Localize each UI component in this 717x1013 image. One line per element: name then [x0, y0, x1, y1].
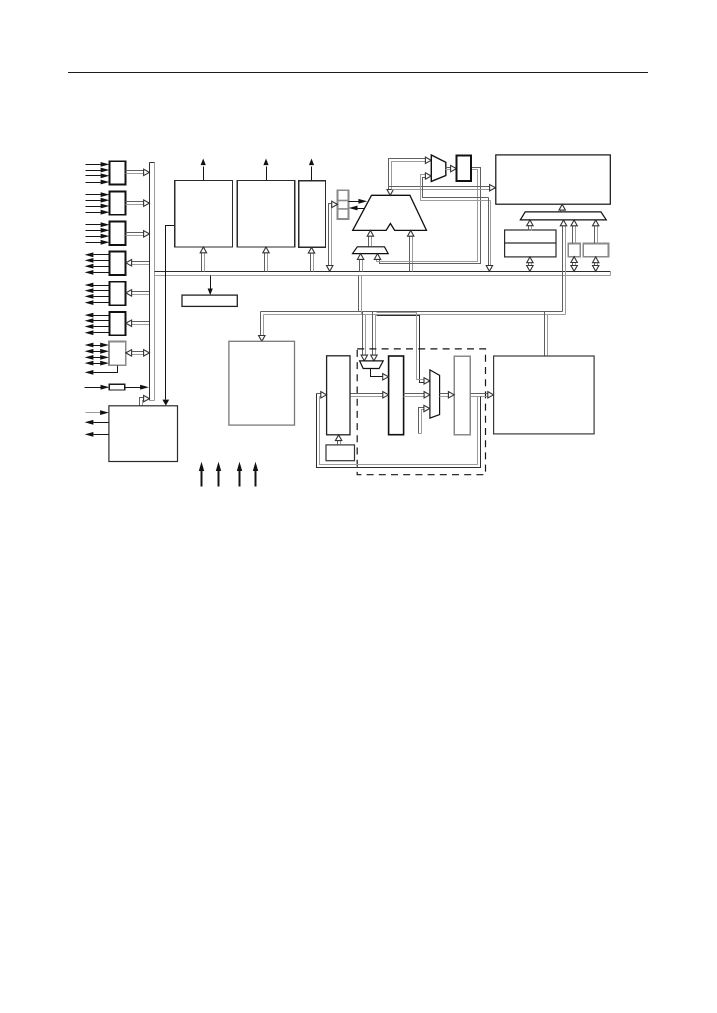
wire output from control box upper: [85, 420, 109, 425]
wire series box to data bus: [125, 385, 149, 390]
input lines into port 3: [86, 222, 110, 244]
bidirectional lines port 7: [85, 343, 109, 366]
wire port 1 to data bus: [126, 169, 150, 175]
wire lower bus down into lower mux left: [361, 312, 367, 361]
wire bus up into block 2: [263, 247, 269, 272]
output lines from port 5: [85, 283, 110, 305]
wire instruction register down to flags mux: [374, 168, 480, 264]
wire pipeline mux to stage box 3: [440, 392, 455, 398]
status arrow 2: [216, 462, 221, 487]
wire over to pipeline mux: [377, 313, 430, 385]
sram block bottom right: [494, 356, 594, 434]
wire port 3 to data bus: [126, 231, 150, 237]
wire lower bus down into data block: [259, 312, 265, 342]
wire trapezoid down into small register: [571, 220, 577, 244]
control box bottom left: [109, 406, 178, 462]
output lines from port 6: [85, 313, 110, 335]
memory block 1: [175, 181, 233, 247]
wire output from control box lower: [85, 432, 109, 437]
wire data bus to port 6: [126, 320, 150, 326]
data block middle left: [229, 341, 295, 425]
instruction register: [456, 155, 471, 181]
status arrow 4: [253, 462, 258, 487]
wire lower bus down to sram block: [545, 312, 548, 357]
output lines from port 4: [85, 252, 110, 274]
wire bus down to small register box: [208, 276, 213, 296]
wire lower mux output to stage box 2: [371, 369, 389, 381]
wire data bus to port 5: [126, 290, 150, 296]
wire bus up into register stack: [327, 201, 338, 271]
status arrow 1: [199, 462, 204, 487]
wire bus up into ALU right: [408, 230, 414, 271]
wire stage box 1 to stage box 2: [351, 392, 389, 398]
small register box center: [568, 244, 580, 257]
wire main bus down to lower bus: [359, 276, 362, 315]
pipeline stage box 2: [389, 356, 404, 435]
header rule: [68, 72, 648, 74]
vertical data bus: [150, 163, 155, 401]
pipeline stage box 1: [327, 356, 350, 435]
wire mux output to instruction register: [446, 165, 457, 171]
small series box on input line: [109, 384, 125, 390]
arrow register stack to ALU: [349, 199, 368, 204]
flags mux below ALU: [353, 247, 389, 254]
feedback register box: [326, 445, 355, 461]
wire pointer register to bus both ways: [593, 257, 599, 271]
feedback loop wire: [317, 394, 481, 468]
pipeline stage box 3: [454, 356, 470, 435]
wire stage box 3 to sram block: [471, 392, 494, 398]
wire net to program block: [389, 185, 496, 191]
wire data bus to port 4: [126, 260, 150, 266]
wire bus up into block 1: [200, 247, 206, 272]
program block top right: [496, 155, 611, 204]
wire net ALU top: [387, 157, 431, 195]
wire flags mux up into ALU: [367, 230, 373, 246]
status arrow 3: [237, 462, 242, 487]
wire feedback register up into stage box 1: [335, 435, 341, 445]
wire loop into stage box 1: [317, 392, 327, 398]
wire port 2 to data bus: [126, 200, 150, 206]
wire bus up into block 3: [308, 247, 314, 271]
bidirectional port box 7: [109, 342, 126, 366]
arrow up from block 1: [201, 159, 206, 181]
pipeline mux: [430, 370, 440, 418]
long wire trapezoid down to lower bus: [560, 220, 566, 315]
main horizontal data bus: [155, 272, 611, 276]
ALU: [353, 195, 427, 230]
wire below port 7 going left: [85, 366, 118, 375]
small register box below bus: [182, 295, 237, 306]
register stack box (3 segments): [338, 190, 349, 219]
wire register pair up into trapezoid: [527, 220, 533, 231]
output port box 6: [109, 312, 125, 335]
stub wire into pipeline mux: [419, 405, 430, 433]
pointer register box right: [583, 244, 608, 257]
wire bus up into flags mux left: [357, 254, 363, 272]
lower horizontal bus: [261, 312, 566, 315]
input port box 2: [109, 191, 125, 214]
input lines into port 1: [86, 162, 110, 184]
dashed boundary box: [357, 349, 485, 475]
register pair box right: [505, 230, 556, 257]
wire trapezoid up into program block: [559, 204, 565, 211]
arrow up from block 3: [309, 159, 314, 181]
memory block 3: [299, 181, 326, 247]
input port box 3: [109, 222, 125, 245]
wire lower bus down into lower mux right: [371, 312, 377, 361]
wire feedback down to bus: [486, 198, 492, 272]
arrow ALU to register stack: [349, 206, 365, 211]
wire trapezoid down into pointer register: [593, 220, 599, 244]
input port box 1: [109, 161, 125, 184]
wire register pair to bus both ways: [527, 257, 533, 271]
wire stage box 2 to pipeline mux: [404, 392, 430, 398]
bidirectional wire port 7 to data bus: [126, 350, 150, 356]
arrow up from block 2: [263, 159, 268, 181]
wire small register to bus both ways: [571, 257, 577, 272]
selector trapezoid below program block: [520, 212, 606, 220]
memory block 2: [237, 181, 294, 247]
wire input into control box: [86, 410, 109, 415]
input lines into port 2: [86, 192, 110, 214]
wire hook from control box to vertical bus: [140, 395, 150, 405]
wire into series box: [85, 385, 110, 390]
lower mux: [360, 361, 384, 369]
wire from block 1 down to control box: [162, 226, 174, 406]
output port box 5: [109, 282, 125, 305]
wire feedback to instruction mux lower input: [421, 173, 491, 201]
instruction mux: [431, 155, 446, 181]
output port box 4: [109, 252, 125, 275]
